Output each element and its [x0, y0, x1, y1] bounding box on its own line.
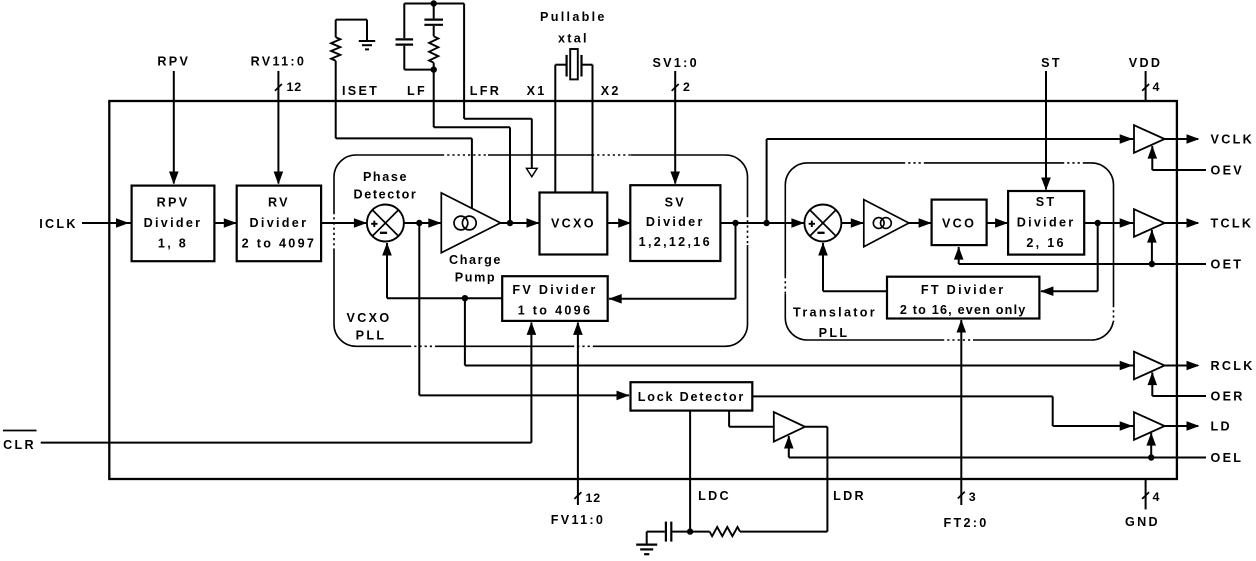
resistor R2 (LF middle branch) — [429, 36, 438, 69]
svg-text:RPV: RPV — [157, 195, 190, 209]
svg-text:3: 3 — [969, 490, 977, 504]
arrowhead FV11:0 into FV Divider — [573, 322, 583, 335]
svg-text:TCLK: TCLK — [1211, 216, 1254, 230]
arrowhead into FV Divider right side — [609, 294, 622, 304]
bus slash SV1:0 /2 — [672, 80, 691, 94]
output buffer RCLK — [1134, 352, 1165, 380]
open arrowhead on LFR line — [526, 168, 537, 177]
junction dot ST output feedback — [1095, 220, 1101, 226]
svg-text:1, 8: 1, 8 — [158, 237, 188, 251]
arrowhead before RCLK buffer — [1120, 361, 1133, 371]
svg-text:12: 12 — [287, 80, 302, 94]
svg-text:RCLK: RCLK — [1211, 359, 1255, 373]
wire translator feedback ST output to FT Divider — [1041, 223, 1098, 291]
wire FV11:0 input bus — [577, 323, 579, 506]
wire RCLK output — [1165, 365, 1198, 367]
wire SV Divider to translator phase detector — [720, 222, 804, 224]
junction dot FV output / RCLK branch — [462, 295, 468, 301]
bus slash VDD /4 — [1142, 80, 1160, 94]
svg-text:Divider: Divider — [646, 215, 705, 229]
bus slash FT2:0 /3 — [958, 490, 977, 504]
svg-text:Divider: Divider — [144, 216, 203, 230]
wire LD output — [1165, 425, 1198, 427]
wire lock detector to LD buffer — [752, 396, 1134, 426]
resistor R3 between LDC and LDR — [690, 527, 827, 536]
arrowhead into RV Divider — [224, 218, 237, 228]
wire FT Divider output to translator phase detector — [823, 243, 887, 291]
svg-text:LDC: LDC — [698, 489, 731, 503]
label Charge Pump — [449, 253, 502, 285]
wire OER input — [1152, 373, 1206, 397]
wire FV Divider output to feedback node — [387, 297, 502, 299]
arrowhead FT2:0 into FT Divider — [957, 320, 967, 333]
wire ISET pin to charge pump — [336, 61, 472, 209]
svg-text:Lock Detector: Lock Detector — [638, 390, 745, 404]
svg-text:ISET: ISET — [342, 84, 379, 98]
capacitor C2 (LF middle branch) — [424, 4, 443, 37]
wire RCLK branch drop — [464, 298, 466, 365]
arrowhead OEL into LDR buffer — [784, 436, 794, 449]
svg-text:12: 12 — [586, 491, 601, 505]
arrowhead OEL into LD buffer — [1146, 433, 1156, 446]
svg-text:FV Divider: FV Divider — [512, 283, 597, 297]
arrowhead into translator phase detector — [791, 218, 804, 228]
output buffer TCLK — [1134, 209, 1165, 237]
arrowhead into VCXO — [527, 218, 540, 228]
svg-text:LFR: LFR — [470, 84, 501, 98]
wire RCLK line to buffer — [465, 365, 1134, 367]
block FT Divider — [887, 277, 1039, 319]
svg-text:VCLK: VCLK — [1211, 132, 1254, 146]
svg-text:Translator: Translator — [793, 306, 877, 320]
block VCXO U2 — [540, 193, 608, 255]
svg-text:RV: RV — [268, 195, 290, 209]
svg-text:Detector: Detector — [354, 188, 418, 202]
arrowhead before VCLK buffer — [1120, 134, 1133, 144]
chip outline box — [109, 101, 1177, 479]
charge pump triangle — [441, 193, 500, 253]
svg-text:Charge: Charge — [449, 253, 502, 267]
wire ISET resistor to ground — [336, 20, 367, 41]
loop filter bottom wire — [404, 69, 433, 71]
crystal Y1 (pullable xtal) — [567, 49, 582, 79]
ground symbol at LDC network — [636, 532, 657, 555]
arrowhead OEV into VCLK buffer — [1148, 146, 1158, 159]
svg-text:xtal: xtal — [558, 32, 589, 46]
bus slash RV11:0 /12 — [275, 80, 302, 94]
label VCXO PLL — [347, 311, 392, 343]
svg-text:CLR: CLR — [3, 438, 36, 452]
svg-text:OEV: OEV — [1211, 163, 1245, 177]
wire LDR buffer output to LDR pin — [805, 427, 827, 532]
svg-text:GND: GND — [1125, 515, 1160, 529]
svg-text:OER: OER — [1211, 389, 1245, 403]
wire LFR pin — [464, 4, 532, 169]
wire SV1:0 pin bus — [674, 71, 676, 184]
wire OEL input — [789, 433, 1206, 458]
arrowhead into SV Divider — [618, 218, 631, 228]
svg-text:VDD: VDD — [1129, 56, 1163, 70]
svg-text:4: 4 — [1153, 490, 1161, 504]
loop amp triangle (Translator PLL) — [864, 200, 909, 247]
output buffer VCLK — [1134, 125, 1165, 153]
svg-text:4: 4 — [1153, 80, 1161, 94]
wire VCXO to SV Divider — [607, 222, 631, 224]
arrowhead OET into TCLK buffer — [1147, 230, 1157, 243]
svg-text:Pullable: Pullable — [540, 10, 607, 24]
svg-text:1,2,12,16: 1,2,12,16 — [639, 235, 712, 249]
block FV Divider — [502, 276, 608, 321]
svg-text:2 to 16, even only: 2 to 16, even only — [900, 303, 1027, 317]
wire FV feedback from SV output node — [609, 223, 736, 299]
arrowhead into ST Divider — [995, 218, 1008, 228]
wire VCO to ST Divider — [987, 222, 1009, 224]
arrowhead RV11:0 into RV Divider — [274, 172, 284, 185]
wire lock detector to LDR buffer — [729, 411, 774, 427]
junction dot LDC node — [687, 528, 693, 534]
Translator PLL boundary (rounded, partly dotted) — [783, 160, 1116, 342]
svg-text:2 to 4097: 2 to 4097 — [242, 237, 317, 251]
junction dot phase detector output — [416, 220, 422, 226]
arrowhead OET into VCO bottom — [954, 247, 964, 260]
junction dot charge pump output / LF node — [507, 220, 513, 226]
wire translator phase detector to loop amp — [841, 222, 863, 224]
wire OEV input — [1152, 146, 1206, 170]
label Phase Detector — [354, 170, 418, 202]
wire FT2:0 input bus — [960, 320, 962, 505]
svg-text:Pump: Pump — [455, 271, 496, 285]
arrowhead into charge pump — [428, 218, 441, 228]
wire X1 pin to VCXO — [555, 65, 566, 193]
wire ST Divider to TCLK buffer — [1084, 222, 1134, 224]
junction dot OET to TCLK buffer — [1149, 261, 1155, 267]
ground symbol at ISET network — [359, 41, 375, 49]
svg-text:ICLK: ICLK — [39, 217, 78, 231]
resistor on ISET pin — [331, 20, 340, 61]
svg-text:ST: ST — [1041, 56, 1062, 70]
wire LF pin riser — [434, 70, 510, 223]
arrowhead ICLK into chip — [116, 218, 129, 228]
svg-text:FT2:0: FT2:0 — [943, 516, 988, 530]
wire OET input — [959, 230, 1206, 264]
phase detector U4 (Translator PLL) — [804, 205, 841, 242]
arrowhead LD output — [1187, 421, 1200, 431]
wire RV Divider to phase detector U1 — [321, 222, 367, 224]
svg-text:2, 16: 2, 16 — [1026, 236, 1066, 250]
block RPV Divider — [132, 186, 215, 262]
wire lock detector input — [419, 223, 629, 395]
wire ICLK input — [82, 222, 133, 224]
svg-text:VCXO: VCXO — [551, 217, 596, 231]
arrowhead into Lock Detector — [617, 391, 630, 401]
arrowhead before LD buffer — [1120, 421, 1133, 431]
svg-text:FV11:0: FV11:0 — [551, 513, 605, 527]
label CLR with overbar — [3, 431, 37, 453]
phase detector U1 (VCXO PLL) — [367, 205, 404, 242]
arrowhead feedback into translator phase detector — [818, 243, 828, 256]
capacitor C1 (LF left branch) — [396, 4, 414, 70]
svg-text:PLL: PLL — [819, 326, 850, 340]
wire VCLK output — [1165, 138, 1198, 140]
arrowhead into loop amp — [851, 218, 864, 228]
arrowhead TCLK output — [1187, 218, 1200, 228]
svg-text:FT Divider: FT Divider — [921, 283, 1006, 297]
svg-text:PLL: PLL — [356, 329, 387, 343]
svg-text:Divider: Divider — [250, 216, 309, 230]
wire loop amp to VCO — [909, 222, 932, 224]
svg-text:Divider: Divider — [1017, 216, 1076, 230]
svg-text:ST: ST — [1036, 195, 1057, 209]
arrowhead CLR into FV Divider — [527, 322, 537, 335]
arrowhead RCLK output — [1187, 361, 1200, 371]
wire GND pin — [1145, 479, 1147, 509]
svg-text:RPV: RPV — [157, 55, 190, 69]
block Lock Detector — [631, 382, 753, 410]
arrowhead SV1:0 into SV Divider — [670, 172, 680, 185]
wire phase detector U1 feedback — [386, 243, 388, 298]
junction dot loop filter bottom — [431, 66, 437, 72]
arrowhead VCLK output — [1187, 134, 1200, 144]
arrowhead into phase detector U1 — [354, 218, 367, 228]
wire VDD pin — [1145, 71, 1147, 101]
svg-text:X1: X1 — [527, 84, 547, 98]
wire VCLK line to buffer — [767, 138, 1134, 140]
block VCO U3 — [932, 200, 987, 246]
arrowhead before TCLK buffer — [1120, 218, 1133, 228]
bus slash GND /4 — [1142, 490, 1160, 504]
svg-text:LD: LD — [1211, 419, 1232, 433]
svg-text:X2: X2 — [601, 84, 621, 98]
svg-text:Phase: Phase — [363, 170, 408, 184]
arrowhead feedback into phase detector U1 — [382, 243, 392, 256]
label Translator PLL — [793, 306, 877, 341]
wire VCLK branch riser — [766, 139, 768, 223]
VCXO PLL boundary (rounded, partly dotted) — [332, 153, 751, 349]
wire RV11:0 pin bus — [277, 71, 279, 184]
wire ST pin — [1045, 71, 1047, 190]
output buffer LD — [1134, 412, 1165, 440]
loop filter top wire — [404, 3, 464, 5]
svg-text:1 to 4096: 1 to 4096 — [518, 304, 593, 318]
wire lock detector to LDC pin — [689, 411, 691, 532]
arrowhead ST into ST Divider — [1041, 178, 1051, 191]
svg-text:VCXO: VCXO — [347, 311, 392, 325]
junction dot OEL to LD buffer — [1148, 454, 1154, 460]
svg-text:RV11:0: RV11:0 — [251, 55, 307, 69]
svg-text:SV: SV — [665, 196, 686, 210]
arrowhead RPV into RPV Divider — [169, 172, 179, 185]
block SV Divider — [630, 185, 720, 261]
svg-text:LDR: LDR — [833, 489, 866, 503]
buffer LDR — [774, 412, 805, 442]
svg-text:VCO: VCO — [942, 216, 976, 230]
svg-text:OET: OET — [1211, 257, 1244, 271]
svg-text:SV1:0: SV1:0 — [652, 56, 699, 70]
junction dot loop filter top — [431, 0, 437, 6]
capacitor C3 on LDC pin — [647, 522, 690, 542]
wire TCLK output — [1165, 222, 1198, 224]
wire RPV pin — [173, 71, 175, 184]
wire X2 pin to VCXO — [582, 65, 592, 193]
arrowhead into FT Divider right side — [1040, 286, 1053, 296]
block RV Divider — [237, 186, 321, 262]
svg-text:OEL: OEL — [1211, 451, 1244, 465]
wire CLR input — [41, 323, 532, 443]
arrowhead OER into RCLK buffer — [1148, 372, 1158, 385]
wire phase detector U1 to charge pump — [404, 222, 441, 224]
junction dot SV output to FV feedback — [732, 220, 738, 226]
junction dot VCLK branch — [763, 220, 769, 226]
svg-text:LF: LF — [407, 84, 427, 98]
arrowhead into VCO — [919, 218, 932, 228]
wire RPV Divider to RV Divider — [214, 222, 236, 224]
bus slash FV11:0 /12 — [574, 491, 600, 505]
block ST Divider — [1008, 191, 1084, 255]
svg-text:2: 2 — [683, 80, 691, 94]
wire charge pump to VCXO — [501, 222, 540, 224]
label Pullable xtal — [540, 10, 607, 46]
